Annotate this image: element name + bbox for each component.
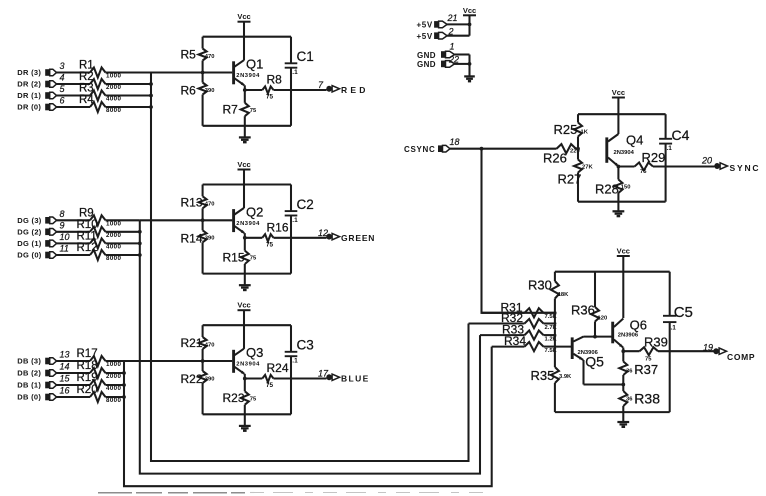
svg-text:DR (1): DR (1) bbox=[17, 91, 41, 100]
svg-text:2000: 2000 bbox=[106, 232, 122, 239]
svg-text:470: 470 bbox=[205, 342, 215, 348]
svg-text:Q2: Q2 bbox=[246, 204, 263, 219]
svg-text:SYNC: SYNC bbox=[730, 163, 761, 173]
svg-text:21: 21 bbox=[447, 13, 458, 23]
svg-text:1000: 1000 bbox=[106, 361, 122, 368]
svg-text:DB (1): DB (1) bbox=[17, 381, 41, 390]
svg-text:DG (3): DG (3) bbox=[17, 216, 42, 225]
svg-text:R6: R6 bbox=[181, 84, 197, 98]
svg-text:4000: 4000 bbox=[106, 96, 122, 103]
svg-text:Vcc: Vcc bbox=[237, 160, 250, 169]
svg-text:GND: GND bbox=[417, 51, 436, 60]
svg-text:R21: R21 bbox=[181, 336, 203, 350]
svg-text:1: 1 bbox=[450, 41, 455, 51]
svg-text:10: 10 bbox=[60, 232, 70, 242]
svg-text:R35: R35 bbox=[531, 368, 555, 383]
svg-text:R27: R27 bbox=[558, 172, 582, 187]
svg-text:75: 75 bbox=[266, 94, 274, 101]
svg-text:4000: 4000 bbox=[106, 385, 122, 392]
svg-text:19: 19 bbox=[703, 343, 713, 353]
svg-text:Vcc: Vcc bbox=[237, 301, 250, 310]
svg-text:2N3906: 2N3906 bbox=[578, 350, 599, 356]
svg-text:75: 75 bbox=[250, 396, 257, 402]
svg-text:1000: 1000 bbox=[106, 73, 122, 80]
svg-text:3.9K: 3.9K bbox=[559, 374, 572, 380]
svg-text:75: 75 bbox=[266, 241, 274, 248]
svg-text:2N3904: 2N3904 bbox=[614, 150, 635, 156]
svg-text:DR (0): DR (0) bbox=[17, 103, 41, 112]
svg-text:R15: R15 bbox=[223, 250, 245, 264]
svg-text:Q4: Q4 bbox=[626, 133, 643, 148]
svg-text:Q6: Q6 bbox=[630, 318, 647, 333]
svg-text:R38: R38 bbox=[634, 391, 660, 407]
svg-text:R26: R26 bbox=[543, 151, 567, 166]
svg-text:R13: R13 bbox=[181, 195, 203, 209]
svg-text:R29: R29 bbox=[642, 150, 666, 165]
svg-text:C3: C3 bbox=[297, 338, 314, 353]
svg-text:11: 11 bbox=[60, 244, 69, 254]
svg-text:C4: C4 bbox=[672, 127, 690, 143]
svg-text:R12: R12 bbox=[77, 242, 98, 254]
svg-text:.1: .1 bbox=[292, 358, 298, 365]
svg-text:C1: C1 bbox=[297, 49, 314, 64]
svg-text:C5: C5 bbox=[674, 304, 693, 321]
svg-text:R34: R34 bbox=[504, 334, 526, 348]
svg-text:R30: R30 bbox=[528, 278, 552, 293]
svg-text:4: 4 bbox=[60, 73, 65, 83]
svg-text:R19: R19 bbox=[77, 372, 98, 384]
svg-text:16: 16 bbox=[60, 386, 70, 396]
svg-text:Vcc: Vcc bbox=[237, 12, 250, 21]
svg-text:.1: .1 bbox=[292, 217, 298, 224]
svg-text:COMP: COMP bbox=[727, 352, 755, 362]
svg-text:R23: R23 bbox=[223, 391, 245, 405]
svg-text:1000: 1000 bbox=[106, 221, 122, 228]
svg-text:R7: R7 bbox=[223, 103, 239, 117]
svg-text:2N3906: 2N3906 bbox=[618, 332, 639, 338]
svg-text:.1: .1 bbox=[667, 145, 673, 152]
svg-text:R28: R28 bbox=[595, 182, 619, 197]
svg-text:GND: GND bbox=[417, 60, 436, 69]
svg-text:Q5: Q5 bbox=[585, 354, 604, 370]
svg-text:Q1: Q1 bbox=[246, 57, 263, 72]
svg-text:DR (2): DR (2) bbox=[17, 80, 41, 89]
svg-text:R3: R3 bbox=[79, 83, 94, 95]
svg-text:DG (1): DG (1) bbox=[17, 239, 42, 248]
svg-text:R24: R24 bbox=[267, 361, 289, 375]
svg-text:Q3: Q3 bbox=[246, 345, 263, 360]
svg-text:2N3904: 2N3904 bbox=[236, 73, 260, 79]
svg-text:15: 15 bbox=[60, 374, 71, 384]
svg-text:R37: R37 bbox=[634, 362, 658, 377]
svg-text:R4: R4 bbox=[79, 94, 94, 106]
svg-text:DB (0): DB (0) bbox=[17, 393, 41, 402]
svg-text:R14: R14 bbox=[181, 231, 203, 245]
svg-text:R18: R18 bbox=[77, 360, 98, 372]
svg-text:75: 75 bbox=[250, 108, 257, 114]
svg-text:470: 470 bbox=[205, 54, 215, 60]
svg-text:8: 8 bbox=[60, 209, 65, 219]
svg-text:390: 390 bbox=[205, 88, 215, 94]
svg-text:18K: 18K bbox=[558, 292, 569, 298]
svg-text:75: 75 bbox=[640, 169, 647, 175]
svg-text:.1: .1 bbox=[671, 325, 677, 332]
svg-text:.1: .1 bbox=[292, 69, 298, 76]
svg-text:DB (3): DB (3) bbox=[17, 357, 41, 366]
svg-text:36: 36 bbox=[626, 368, 633, 374]
svg-text:8000: 8000 bbox=[106, 107, 122, 114]
svg-text:C2: C2 bbox=[297, 197, 314, 212]
svg-text:R22: R22 bbox=[181, 372, 203, 386]
svg-text:8000: 8000 bbox=[106, 397, 122, 404]
svg-text:+5V: +5V bbox=[417, 21, 433, 30]
svg-text:27K: 27K bbox=[582, 165, 593, 171]
svg-text:75: 75 bbox=[645, 357, 652, 363]
svg-text:R36: R36 bbox=[571, 303, 595, 318]
svg-text:R9: R9 bbox=[79, 208, 94, 220]
svg-text:3: 3 bbox=[60, 61, 65, 71]
svg-text:470: 470 bbox=[205, 202, 215, 208]
svg-text:DR (3): DR (3) bbox=[17, 68, 41, 77]
svg-text:120: 120 bbox=[598, 316, 608, 322]
svg-text:2000: 2000 bbox=[106, 84, 122, 91]
svg-text:150: 150 bbox=[621, 184, 631, 190]
svg-text:DG (2): DG (2) bbox=[17, 228, 42, 237]
svg-text:36: 36 bbox=[626, 397, 633, 403]
svg-text:BLUE: BLUE bbox=[341, 374, 370, 384]
svg-text:R1: R1 bbox=[79, 60, 94, 72]
svg-text:R11: R11 bbox=[77, 231, 97, 243]
svg-text:R5: R5 bbox=[181, 48, 197, 62]
svg-text:75: 75 bbox=[266, 382, 274, 389]
svg-text:Vcc: Vcc bbox=[612, 88, 625, 97]
svg-text:R20: R20 bbox=[77, 384, 98, 396]
svg-text:2N3904: 2N3904 bbox=[236, 221, 260, 227]
svg-text:2000: 2000 bbox=[106, 373, 122, 380]
svg-text:9: 9 bbox=[60, 220, 65, 230]
svg-text:Vcc: Vcc bbox=[463, 6, 476, 15]
svg-text:R8: R8 bbox=[267, 73, 283, 87]
svg-text:13: 13 bbox=[60, 350, 70, 360]
svg-text:2N3904: 2N3904 bbox=[236, 362, 260, 368]
svg-text:+5V: +5V bbox=[417, 32, 433, 41]
svg-text:14: 14 bbox=[60, 362, 70, 372]
svg-text:4000: 4000 bbox=[106, 244, 122, 251]
svg-text:R16: R16 bbox=[267, 220, 289, 234]
svg-text:390: 390 bbox=[205, 236, 215, 242]
svg-text:R39: R39 bbox=[644, 335, 668, 350]
svg-text:Vcc: Vcc bbox=[617, 247, 630, 256]
svg-text:20: 20 bbox=[701, 156, 712, 166]
svg-text:DB (2): DB (2) bbox=[17, 369, 41, 378]
svg-text:390: 390 bbox=[205, 376, 215, 382]
svg-text:GREEN: GREEN bbox=[341, 233, 375, 243]
svg-text:R25: R25 bbox=[554, 122, 578, 137]
svg-text:R10: R10 bbox=[77, 219, 98, 231]
svg-text:R2: R2 bbox=[79, 71, 94, 83]
svg-text:18: 18 bbox=[450, 137, 460, 147]
svg-text:75: 75 bbox=[250, 256, 257, 262]
svg-text:6: 6 bbox=[60, 96, 65, 106]
svg-text:R17: R17 bbox=[77, 348, 98, 360]
svg-text:8000: 8000 bbox=[106, 255, 122, 262]
svg-text:CSYNC: CSYNC bbox=[404, 145, 436, 154]
svg-text:DG (0): DG (0) bbox=[17, 251, 42, 260]
svg-text:RED: RED bbox=[341, 85, 369, 95]
svg-text:1K: 1K bbox=[581, 130, 589, 136]
